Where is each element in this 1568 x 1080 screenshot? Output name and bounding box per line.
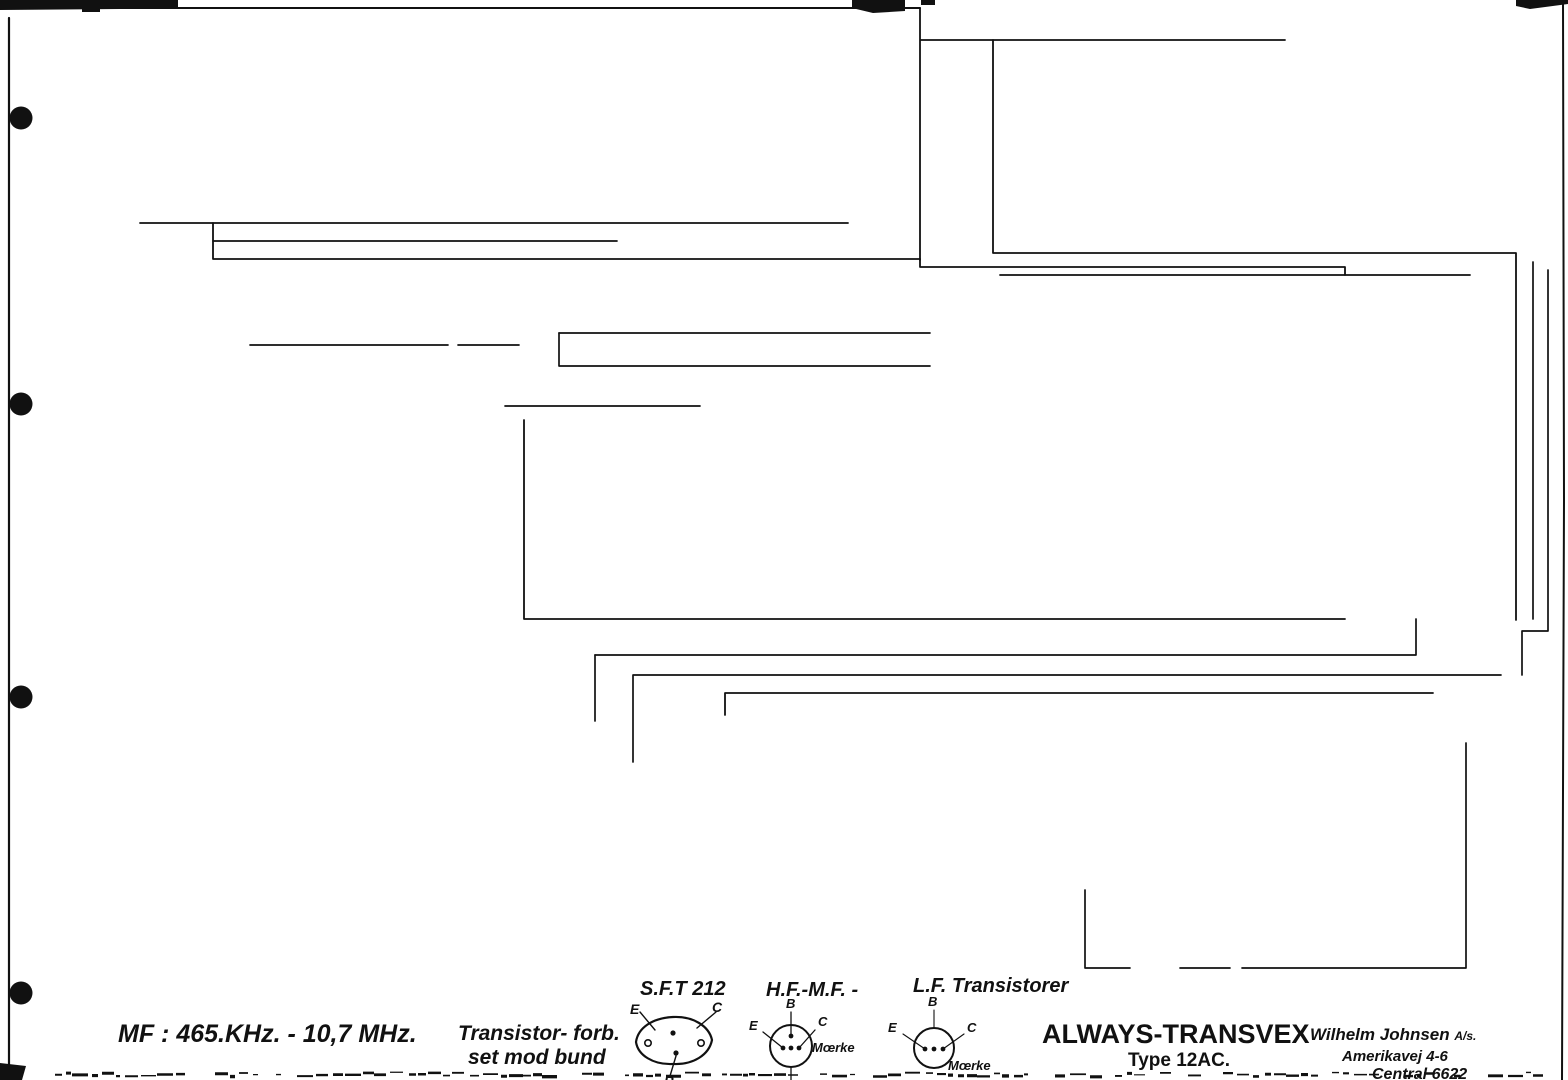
R4 bias wire y241: [213, 240, 617, 242]
svg-text:B: B: [664, 1073, 674, 1080]
pinout HF-MF package: [749, 996, 855, 1080]
bottom-left corner blob: [0, 1063, 26, 1080]
svg-text:Mœrke: Mœrke: [948, 1058, 991, 1073]
punch hole 4: [10, 982, 33, 1005]
text ALWAYS-TRANSVEX: [1042, 1019, 1310, 1071]
top right speckles: [921, 0, 1568, 9]
text MF frequency: [118, 1020, 417, 1048]
bottom edge scan strip: [55, 1072, 1543, 1079]
top frame wire: [30, 7, 920, 9]
top edge scuff: [852, 0, 905, 13]
svg-text:Wilhelm Johnsen A/s.: Wilhelm Johnsen A/s.: [1310, 1025, 1476, 1044]
svg-text:ALWAYS-TRANSVEX: ALWAYS-TRANSVEX: [1042, 1019, 1310, 1049]
punch hole 3: [10, 686, 33, 709]
feedback bottom wire: [1085, 743, 1466, 968]
right bundle v1: [1532, 262, 1534, 619]
svg-text:Type 12AC.: Type 12AC.: [1128, 1050, 1230, 1071]
pinout HF-MF label: [766, 979, 859, 1001]
svg-text:Mœrke: Mœrke: [812, 1040, 855, 1055]
pinout LF package: [888, 994, 991, 1073]
text Wilhelm Johnsen: [1310, 1025, 1476, 1080]
page left edge line: [8, 18, 10, 1080]
svg-text:B: B: [928, 994, 937, 1009]
if top bus y275: [1000, 274, 1470, 276]
bus y366: [559, 333, 930, 366]
caps bus y223: [140, 222, 848, 224]
svg-text:C: C: [712, 999, 723, 1015]
if bottom bus y619: [524, 420, 1345, 619]
pinout LF label: [913, 975, 1069, 997]
svg-text:E: E: [630, 1001, 640, 1017]
svg-text:H.F.-M.F. -: H.F.-M.F. -: [766, 979, 859, 1001]
top edge dash 2: [138, 0, 160, 5]
wire y333: [559, 332, 930, 334]
pinout SFT212 label: [640, 978, 726, 1000]
pinout SFT212 package: [630, 999, 723, 1080]
bus y259: [213, 223, 920, 259]
text Transistor-forb: [458, 1022, 620, 1069]
svg-text:S.F.T 212: S.F.T 212: [640, 978, 726, 1000]
top edge dash 1: [82, 8, 100, 12]
svg-text:E: E: [888, 1020, 897, 1035]
punch hole 2: [10, 393, 33, 416]
right bundle v2: [1522, 270, 1548, 675]
audio supply rail y693: [725, 693, 1433, 715]
base bias wire y406: [505, 405, 700, 407]
agc wire y345: [250, 344, 519, 346]
svg-text:Central 6622: Central 6622: [1372, 1066, 1467, 1080]
svg-text:B: B: [786, 996, 795, 1011]
svg-text:set mod bund: set mod bund: [468, 1046, 607, 1069]
svg-text:Transistor- forb.: Transistor- forb.: [458, 1022, 620, 1045]
svg-text:C: C: [967, 1020, 977, 1035]
top-left black bar: [0, 0, 178, 10]
fb wire y675: [595, 655, 1501, 762]
psu bottom wire 1: [993, 40, 1516, 620]
svg-text:C: C: [818, 1014, 828, 1029]
psu bottom wire 2: [920, 259, 1345, 275]
svg-text:MF : 465.KHz. - 10,7 MHz.: MF : 465.KHz. - 10,7 MHz.: [118, 1020, 417, 1048]
punch hole 1: [10, 107, 33, 130]
svg-text:Amerikavej 4-6: Amerikavej 4-6: [1341, 1048, 1449, 1065]
wire psu top: [920, 8, 1285, 260]
page right edge line: [1562, 0, 1564, 1080]
fb wire y651: [595, 619, 1416, 655]
svg-text:E: E: [749, 1018, 758, 1033]
